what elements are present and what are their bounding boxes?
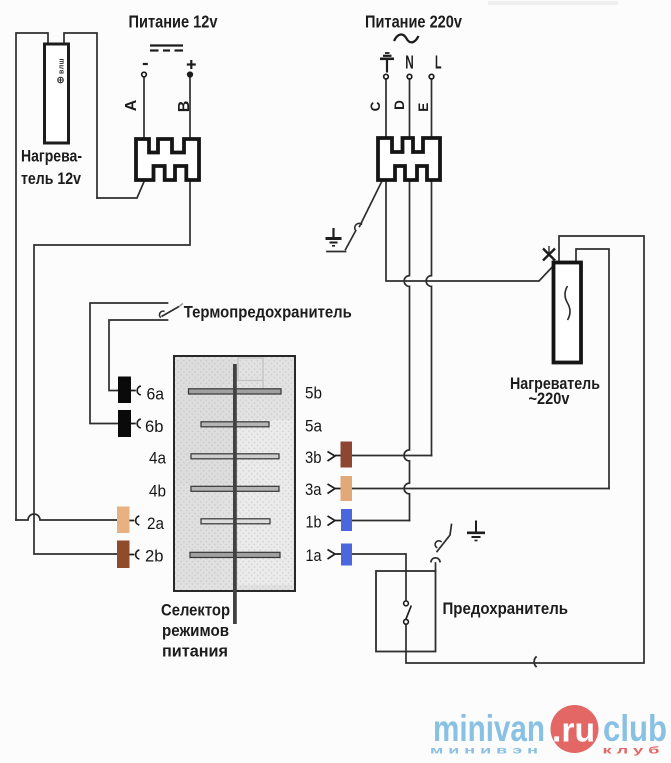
svg-text:minivan: minivan: [433, 708, 545, 749]
svg-text:1a: 1a: [306, 546, 322, 565]
svg-text:N: N: [405, 53, 414, 73]
svg-text:5b: 5b: [305, 384, 322, 403]
svg-text:3a: 3a: [305, 480, 322, 499]
svg-text:A: A: [123, 99, 140, 111]
svg-text:2b: 2b: [145, 547, 164, 566]
svg-text:Термопредохранитель: Термопредохранитель: [184, 303, 352, 322]
svg-text:2a: 2a: [147, 514, 164, 533]
svg-text:C: C: [368, 101, 383, 111]
svg-text:4a: 4a: [149, 449, 166, 468]
svg-text:к л у б: к л у б: [603, 745, 660, 757]
svg-text:E: E: [416, 103, 431, 112]
svg-text:Нагрева-: Нагрева-: [21, 147, 82, 166]
svg-text:D: D: [392, 100, 407, 110]
svg-text:L: L: [435, 53, 442, 73]
svg-text:Селектор: Селектор: [161, 601, 230, 620]
svg-text:Питание 12v: Питание 12v: [129, 11, 218, 31]
svg-text:1b: 1b: [306, 513, 322, 532]
svg-text:4b: 4b: [149, 482, 166, 501]
svg-text:3b: 3b: [305, 448, 322, 467]
svg-text:режимов: режимов: [162, 621, 229, 640]
svg-text:питания: питания: [162, 642, 228, 661]
svg-text:B: B: [176, 101, 193, 113]
svg-text:5a: 5a: [305, 417, 322, 436]
svg-text:~220v: ~220v: [529, 389, 570, 408]
svg-text:влш: влш: [59, 58, 66, 74]
svg-text:6a: 6a: [147, 385, 165, 404]
svg-text:Предохранитель: Предохранитель: [443, 599, 569, 618]
svg-text:club: club: [603, 708, 667, 749]
svg-text:Питание 220v: Питание 220v: [365, 12, 462, 32]
svg-text:тель 12v: тель 12v: [21, 169, 81, 188]
svg-text:м и н и в э н: м и н и в э н: [430, 746, 538, 757]
svg-text:6b: 6b: [145, 417, 164, 436]
svg-text:.ru: .ru: [552, 712, 595, 750]
